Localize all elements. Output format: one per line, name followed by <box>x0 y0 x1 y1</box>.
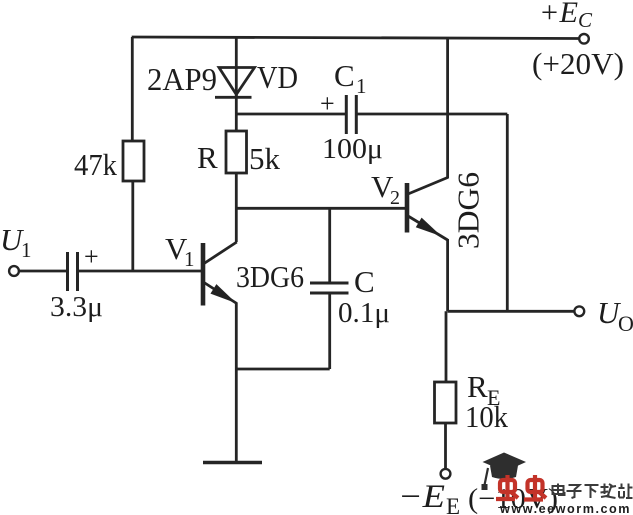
diode VD triangle <box>219 68 255 95</box>
transistor V2 collector diagonal <box>408 178 448 195</box>
resistor R 5k <box>226 131 247 173</box>
svg-text:5k: 5k <box>249 141 281 176</box>
svg-text:+E: +E <box>539 0 578 29</box>
capacitor C1 plate right <box>355 95 358 134</box>
svg-text:3DG6: 3DG6 <box>236 259 304 294</box>
svg-text:+: + <box>84 242 99 271</box>
watermark red character chong 1 <box>496 475 518 499</box>
transistor V1 emitter arrow <box>211 285 234 302</box>
wire node to C1 left <box>236 113 345 116</box>
terminal U1 input <box>9 266 19 276</box>
capacitor C2 3.3u plate right <box>76 252 79 291</box>
watermark text zhan <box>619 484 633 499</box>
watermark text dian <box>553 484 565 496</box>
svg-text:−E: −E <box>398 479 445 515</box>
wire V1 emitter node to C bottom <box>236 368 329 371</box>
transistor V1 collector diagonal <box>204 242 237 264</box>
svg-text:www.eeworm.com: www.eeworm.com <box>499 502 631 515</box>
wire V1 emitter down to ground <box>235 303 238 463</box>
transistor V1 base bar <box>201 243 206 306</box>
svg-text:1: 1 <box>356 74 367 98</box>
capacitor C plate top <box>310 282 349 285</box>
wire input terminal to C2 <box>19 270 67 273</box>
wire node to V2 base <box>236 207 406 210</box>
svg-text:(+20V): (+20V) <box>532 46 624 81</box>
watermark text zi <box>567 485 582 498</box>
wire R bottom to V1 collector <box>235 173 238 242</box>
terminal UO output <box>574 306 584 316</box>
transistor V2 base bar <box>405 183 410 233</box>
svg-text:100μ: 100μ <box>322 133 383 165</box>
watermark red character chong 2 <box>524 475 546 500</box>
wire C1 right to right vertical <box>357 113 507 116</box>
wire 47k bottom to input node <box>131 181 134 272</box>
svg-text:R: R <box>197 140 218 175</box>
transistor V2 emitter arrow <box>417 218 440 235</box>
wire output node to terminal <box>448 310 575 313</box>
wire C top to V2 base wire <box>328 208 331 283</box>
svg-text:3.3μ: 3.3μ <box>50 291 103 323</box>
watermark graduation cap <box>483 453 527 472</box>
transistor V2 emitter diagonal <box>408 216 448 240</box>
svg-text:1: 1 <box>184 247 195 271</box>
svg-text:3DG6: 3DG6 <box>451 172 486 249</box>
svg-text:2: 2 <box>390 187 400 209</box>
svg-text:E: E <box>446 494 460 515</box>
svg-text:47k: 47k <box>74 147 117 182</box>
wire V2 collector up to rail <box>446 37 449 179</box>
wire C bottom vertical <box>328 294 331 370</box>
svg-text:+: + <box>320 89 335 118</box>
transistor V1 emitter diagonal <box>204 283 237 304</box>
wire top supply rail <box>132 37 579 39</box>
wire diode vertical from rail <box>235 37 238 97</box>
svg-text:1: 1 <box>21 238 32 262</box>
resistor RE 10k <box>435 382 457 423</box>
svg-text:10k: 10k <box>465 399 508 434</box>
wire output node down to RE <box>445 311 448 382</box>
svg-text:C: C <box>578 8 593 32</box>
capacitor C1 plate left <box>345 95 348 134</box>
wire right vertical C1 to output node <box>506 114 509 311</box>
capacitor C plate bottom <box>310 292 349 295</box>
svg-text:2AP9: 2AP9 <box>147 61 217 97</box>
watermark text xia <box>585 485 599 498</box>
svg-text:C: C <box>334 58 355 93</box>
wire RE bottom to -EE terminal <box>444 423 447 469</box>
watermark text zai <box>601 484 617 499</box>
wire V2 emitter down to output node <box>446 239 449 311</box>
svg-text:O: O <box>618 311 633 336</box>
capacitor C2 3.3u plate left <box>66 252 69 291</box>
diode VD cathode bar <box>215 96 252 99</box>
resistor 47k <box>123 141 144 181</box>
svg-text:0.1μ: 0.1μ <box>338 297 390 329</box>
wire left vertical top (rail to 47k) <box>131 37 134 141</box>
terminal -EE <box>441 469 451 479</box>
wire C2 to V1 base <box>79 270 203 273</box>
terminal +EC <box>579 34 589 44</box>
ground <box>203 461 262 465</box>
svg-text:C: C <box>354 264 375 299</box>
svg-text:VD: VD <box>257 59 298 95</box>
wire diode to R top <box>235 95 238 131</box>
